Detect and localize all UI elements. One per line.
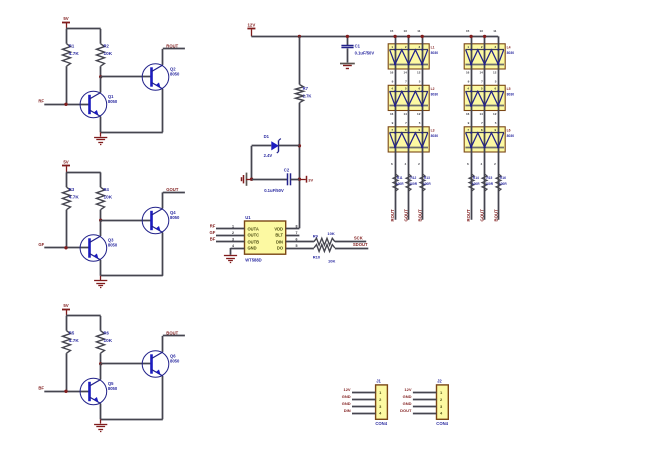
node (rail junction) [393,35,396,38]
wire J1 pin 3 [352,406,376,408]
wire [101,275,163,277]
LED module internal rails and diodes [465,45,504,65]
wire [100,77,102,93]
wire [100,66,102,77]
svg-text:8050: 8050 [170,72,180,77]
LED module L1 body [388,44,438,69]
LED module L3 body [388,127,438,152]
svg-text:L3: L3 [431,128,435,132]
wire [335,248,368,250]
wire [162,376,164,419]
svg-text:14: 14 [403,71,407,75]
svg-text:R1: R1 [69,44,75,49]
svg-text:8050: 8050 [108,243,118,248]
resistor R6 10K [97,331,113,354]
node (rail junction) [469,35,472,38]
wire [44,247,89,249]
transistor Q3 8050 [80,235,118,262]
wire [44,391,89,393]
wire [101,132,163,134]
wire pin 8 (VDD) [286,228,300,230]
resistor R1 4.7K [63,44,80,67]
svg-text:L2: L2 [431,87,435,91]
svg-text:100R: 100R [396,182,404,186]
wire [163,335,185,337]
svg-text:8030: 8030 [431,93,439,97]
svg-text:8030: 8030 [507,93,515,97]
svg-text:10K: 10K [104,338,113,343]
svg-text:DOUT: DOUT [400,408,412,413]
wire [100,404,102,420]
svg-text:CON4: CON4 [436,421,448,426]
connector J2 CON4 [436,378,448,426]
svg-text:RF: RF [38,99,44,104]
wire pin 6 [286,241,314,243]
pin numbers above rail [390,29,421,33]
svg-text:R2: R2 [104,44,110,49]
IC U1 WT588D [245,215,286,262]
svg-text:GOUT: GOUT [480,209,485,222]
resistor R2 10K [97,44,113,67]
transistor Q5 8050 [80,378,118,405]
wire [162,192,164,208]
svg-text:L4: L4 [507,45,511,49]
wire [66,66,68,104]
resistor R11 100R [393,174,404,192]
resistor R3 4.7K [63,187,80,210]
wire [101,76,152,78]
svg-text:OUTC: OUTC [248,233,260,238]
ground (rotated) [242,173,252,186]
svg-text:SCK: SCK [354,236,363,241]
svg-text:5V: 5V [63,303,68,308]
power 12V [247,22,255,36]
resistor R12 100R [406,174,418,192]
svg-text:8050: 8050 [108,99,118,104]
svg-text:L6: L6 [507,128,511,132]
svg-text:8050: 8050 [108,386,118,391]
net label GOUT [166,187,179,192]
net label ROUT [166,44,178,49]
svg-text:3V: 3V [308,177,313,182]
svg-text:10K: 10K [327,231,334,236]
svg-text:16: 16 [466,71,470,75]
svg-text:OUTA: OUTA [248,226,259,231]
wire (LED column) [422,36,424,219]
wire pin 1 [216,228,245,230]
wire [101,419,163,421]
power 5V (circuit GF) [62,159,70,172]
node base junction [99,75,102,78]
svg-text:GND: GND [403,401,412,406]
wire [252,179,288,181]
wire pin 7 [286,235,300,237]
svg-text:1: 1 [232,224,234,228]
svg-text:R10: R10 [313,254,321,259]
net label BF [38,386,44,391]
wire (LED column) [484,36,486,219]
svg-text:R3: R3 [69,187,75,192]
pin numbers below last module [467,162,496,166]
wire [44,104,89,106]
svg-text:R16: R16 [500,176,506,180]
svg-text:DIN: DIN [276,239,283,244]
svg-text:BLT: BLT [275,233,283,238]
capacitor C1 0.1uF/50V [341,36,374,62]
power 5V (circuit RF) [62,16,70,29]
svg-text:100R: 100R [423,182,431,186]
svg-text:4.7K: 4.7K [69,51,80,56]
svg-text:U1: U1 [245,215,251,220]
svg-text:8030: 8030 [507,134,515,138]
wire [100,220,102,236]
svg-text:12: 12 [493,112,497,116]
svg-text:5: 5 [296,244,298,248]
net label RF [38,99,44,104]
node [64,103,67,106]
svg-text:BOUT: BOUT [417,209,422,222]
svg-text:RF: RF [210,224,216,229]
svg-text:J1: J1 [376,378,381,383]
svg-text:GND: GND [342,394,351,399]
svg-text:16: 16 [466,112,470,116]
svg-text:8050: 8050 [170,359,180,364]
resistor R10 10K (horizontal) [313,245,336,264]
svg-text:R11: R11 [397,176,403,180]
wire (LED column) [498,36,500,219]
svg-text:R4: R4 [104,187,110,192]
svg-text:GOUT: GOUT [404,209,409,222]
wire (LED column) [395,36,397,219]
svg-text:11: 11 [493,29,497,33]
ground [94,132,107,144]
svg-text:R5: R5 [69,331,75,336]
svg-text:14: 14 [403,112,407,116]
svg-text:100R: 100R [499,182,507,186]
wire [162,233,164,276]
svg-text:R12: R12 [410,176,416,180]
transistor Q2 8050 [142,64,180,91]
wire J2 pin 2 [413,399,437,401]
resistor R15 100R [482,174,494,192]
node [298,144,301,147]
wire [163,48,185,50]
wire [100,117,102,133]
wire [66,353,68,391]
svg-text:GND: GND [342,401,351,406]
resistor R4 10K [97,187,113,210]
wire [100,364,102,380]
svg-text:0.1uF/50V: 0.1uF/50V [355,50,375,55]
net label BOUT [166,331,178,336]
svg-text:SDOUT: SDOUT [353,242,368,247]
LED module L4 body [464,44,514,69]
svg-text:Q3: Q3 [108,237,114,242]
svg-text:15: 15 [390,29,394,33]
svg-text:2.7K: 2.7K [303,93,312,98]
svg-text:C2: C2 [284,167,290,172]
LED module internal rails and diodes [465,128,504,148]
transistor Q4 8050 [142,207,180,234]
wire J1 pin 1 [352,392,376,394]
LED module L6 body [464,127,514,152]
svg-text:2: 2 [232,231,234,235]
wire (LED column) [471,36,473,219]
ground [94,419,107,431]
wire pin 2 [216,235,245,237]
LED module internal rails and diodes [389,87,428,107]
svg-text:10K: 10K [328,259,335,264]
wire [162,336,164,352]
svg-text:OUTB: OUTB [248,239,260,244]
svg-text:5V: 5V [63,16,68,21]
LED module L2 body [388,85,438,110]
LED module internal rails and diodes [389,128,428,148]
svg-text:GF: GF [209,230,215,235]
node [298,178,301,181]
svg-text:11: 11 [417,29,421,33]
wire [230,248,232,255]
node [250,178,253,181]
node (rail junction) [483,35,486,38]
svg-text:10K: 10K [104,194,113,199]
wire [100,210,102,221]
svg-text:BOUT: BOUT [493,209,498,222]
svg-text:8030: 8030 [431,134,439,138]
wire [66,28,101,30]
svg-text:L1: L1 [431,45,435,49]
wire [100,29,102,44]
svg-text:8050: 8050 [170,215,180,220]
svg-text:12V: 12V [343,387,350,392]
wire pin 3 [216,241,245,243]
svg-text:12: 12 [417,71,421,75]
wire [66,29,68,44]
wire J1 pin 2 [352,399,376,401]
resistor R7 2.7K [296,85,312,103]
svg-text:GOUT: GOUT [166,187,179,192]
power 5V (circuit BF) [62,303,70,316]
node base junction [99,362,102,365]
svg-text:Q6: Q6 [170,353,176,358]
svg-text:100R: 100R [485,182,493,186]
svg-text:Q2: Q2 [170,66,176,71]
wire [66,210,68,248]
LED module internal rails and diodes [465,87,504,107]
svg-text:R14: R14 [473,176,479,180]
node [298,35,301,38]
LED module internal rails and diodes [389,45,428,65]
svg-text:12: 12 [493,71,497,75]
svg-text:4: 4 [232,244,234,248]
svg-text:16: 16 [390,71,394,75]
resistor R13 100R [420,174,431,192]
svg-text:0.1uF/50V: 0.1uF/50V [264,188,284,193]
wire [100,316,102,331]
wire [252,145,272,147]
pin numbers above rail [466,29,497,33]
wire [299,179,305,181]
svg-text:R13: R13 [424,176,430,180]
ground (U1 GND) [224,256,237,263]
wire J1 pin 4 [352,413,376,415]
wire [162,89,164,132]
svg-text:100R: 100R [409,182,417,186]
connector J1 CON4 [375,378,387,426]
wire [66,172,68,187]
svg-text:ROUT: ROUT [466,209,471,222]
svg-text:100R: 100R [472,182,480,186]
svg-text:12V: 12V [247,22,255,27]
svg-text:L5: L5 [507,87,511,91]
pin numbers below last module [391,162,420,166]
svg-text:Q4: Q4 [170,210,176,215]
svg-text:VDD: VDD [274,226,283,231]
svg-text:15: 15 [466,29,470,33]
wire [335,241,366,243]
node [346,35,349,38]
svg-text:ROUT: ROUT [390,209,395,222]
wire (LED column) [408,36,410,219]
ground [340,64,355,69]
capacitor C2 0.1uF/50V [264,167,290,193]
diode D1 zener 2.4V [264,134,281,158]
svg-text:14: 14 [479,71,483,75]
svg-text:D1: D1 [264,134,270,139]
svg-text:GF: GF [38,242,44,247]
wire [162,49,164,65]
wire J2 pin 1 [413,392,437,394]
wire J2 pin 4 [413,413,437,415]
svg-text:7: 7 [296,231,298,235]
svg-text:GND: GND [248,246,257,251]
svg-text:3: 3 [232,238,234,242]
transistor Q1 8050 [80,91,118,118]
wire [163,192,185,194]
svg-text:R7: R7 [303,86,309,91]
node (rail junction) [421,35,424,38]
svg-text:13: 13 [403,29,407,33]
wire [299,36,301,84]
svg-text:R9: R9 [313,233,319,238]
svg-text:WT588D: WT588D [245,257,262,262]
svg-text:J2: J2 [437,378,442,383]
svg-text:6: 6 [296,238,298,242]
wire [291,179,300,181]
svg-text:DIN: DIN [344,408,351,413]
LED module L5 body [464,85,514,110]
wire J2 pin 3 [413,406,437,408]
svg-text:4.7K: 4.7K [69,194,80,199]
svg-text:8030: 8030 [431,51,439,55]
svg-text:Q1: Q1 [108,94,114,99]
resistor R16 100R [496,174,507,192]
wire [251,146,253,179]
wire pin 5 [286,248,314,250]
wire [100,353,102,364]
wire pin 4 (GND) [231,248,245,250]
svg-text:C1: C1 [355,43,361,48]
svg-text:Q5: Q5 [108,381,114,386]
resistor R9 10K (horizontal) [313,231,335,245]
wire [66,315,101,317]
svg-text:CON4: CON4 [375,421,387,426]
net label GF [38,242,44,247]
wire main 12V rail [251,36,498,38]
resistor R5 4.7K [63,331,80,354]
svg-text:4.7K: 4.7K [69,338,80,343]
node [64,246,67,249]
wire [101,363,152,365]
wire [66,316,68,331]
pin numbers between modules [466,71,497,126]
svg-text:12V: 12V [404,387,411,392]
svg-text:BF: BF [38,386,44,391]
svg-text:8030: 8030 [507,51,515,55]
wire [101,220,152,222]
svg-text:16: 16 [390,112,394,116]
svg-text:13: 13 [479,29,483,33]
svg-text:5V: 5V [63,159,68,164]
wire [279,145,300,147]
svg-text:BF: BF [210,237,216,242]
svg-text:2.4V: 2.4V [264,153,273,158]
svg-text:12: 12 [417,112,421,116]
svg-text:8: 8 [296,224,298,228]
wire [66,172,101,174]
svg-text:10K: 10K [104,51,113,56]
wire [299,103,301,229]
svg-text:GND: GND [403,394,412,399]
node (rail junction) [407,35,410,38]
node [64,390,67,393]
node base junction [99,219,102,222]
resistor R14 100R [469,174,480,192]
wire [100,172,102,187]
wire [100,260,102,276]
svg-text:DO: DO [277,246,284,251]
ground [94,276,107,288]
pin numbers between modules [390,71,421,126]
power 3V port [307,176,314,183]
svg-text:R6: R6 [104,331,110,336]
svg-text:14: 14 [479,112,483,116]
svg-text:R15: R15 [486,176,492,180]
transistor Q6 8050 [142,351,180,378]
